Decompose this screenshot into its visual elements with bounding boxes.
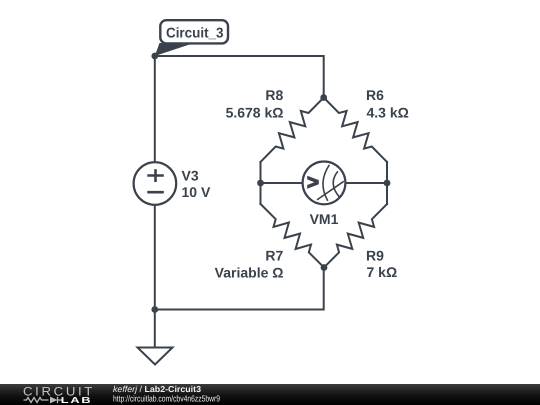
svg-text:>: > — [307, 171, 319, 194]
svg-text:R8: R8 — [265, 87, 283, 103]
svg-text:Circuit_3: Circuit_3 — [166, 26, 224, 42]
svg-text:R6: R6 — [366, 87, 384, 103]
svg-text:LAB: LAB — [61, 395, 93, 405]
svg-text:R9: R9 — [366, 247, 384, 263]
svg-text:Variable Ω: Variable Ω — [215, 264, 284, 280]
svg-text:7 kΩ: 7 kΩ — [367, 264, 398, 280]
svg-text:VM1: VM1 — [310, 211, 339, 227]
svg-text:4.3 kΩ: 4.3 kΩ — [367, 105, 409, 121]
svg-text:R7: R7 — [265, 247, 283, 263]
svg-text:10 V: 10 V — [182, 184, 211, 200]
svg-text:http://circuitlab.com/cbv4n6zz: http://circuitlab.com/cbv4n6zz5bwr9 — [113, 394, 220, 404]
svg-text:V3: V3 — [182, 168, 199, 184]
svg-text:kefferj / Lab2-Circuit3: kefferj / Lab2-Circuit3 — [113, 384, 201, 394]
svg-text:5.678 kΩ: 5.678 kΩ — [226, 105, 284, 121]
